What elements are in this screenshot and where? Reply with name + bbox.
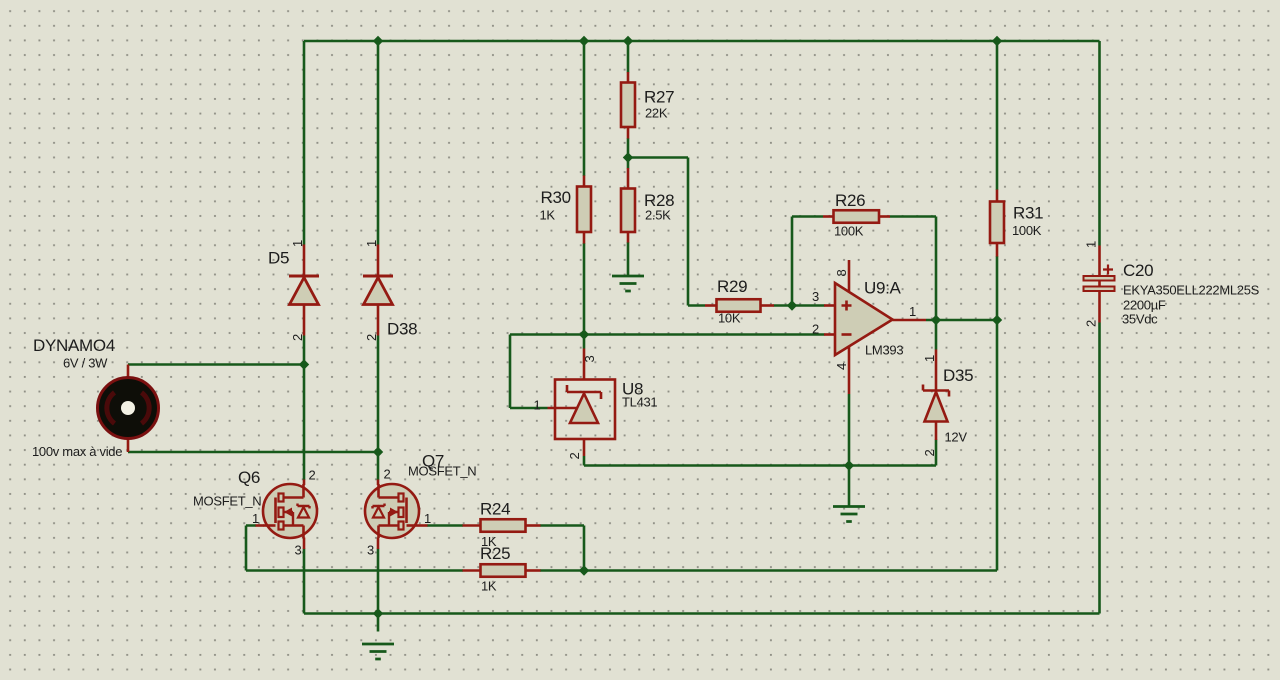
svg-text:D38: D38 — [387, 320, 417, 339]
svg-text:LM393: LM393 — [865, 343, 903, 358]
svg-text:3: 3 — [582, 355, 597, 362]
svg-text:2: 2 — [384, 467, 391, 482]
svg-text:DYNAMO4: DYNAMO4 — [33, 336, 115, 355]
svg-text:2: 2 — [364, 334, 379, 341]
svg-text:2: 2 — [812, 322, 819, 337]
svg-text:2: 2 — [922, 449, 937, 456]
svg-text:TL431: TL431 — [622, 395, 657, 410]
svg-text:3: 3 — [812, 289, 819, 304]
svg-text:1: 1 — [364, 240, 379, 247]
svg-text:8: 8 — [834, 269, 849, 276]
svg-text:3: 3 — [367, 543, 374, 558]
svg-text:2.5K: 2.5K — [645, 208, 671, 223]
svg-text:1: 1 — [290, 240, 305, 247]
svg-text:2200µF: 2200µF — [1123, 298, 1166, 313]
svg-text:R29: R29 — [717, 277, 747, 296]
svg-text:2: 2 — [1083, 320, 1098, 327]
svg-text:1: 1 — [909, 304, 916, 319]
svg-text:100v max à vide: 100v max à vide — [32, 444, 122, 459]
svg-text:2: 2 — [567, 452, 582, 459]
svg-text:6V / 3W: 6V / 3W — [63, 356, 108, 371]
svg-text:3: 3 — [295, 543, 302, 558]
svg-text:4: 4 — [834, 363, 849, 370]
svg-text:R24: R24 — [480, 500, 510, 519]
svg-text:2: 2 — [290, 334, 305, 341]
svg-text:R31: R31 — [1013, 204, 1043, 223]
svg-text:1: 1 — [252, 511, 259, 526]
svg-text:1: 1 — [534, 398, 541, 413]
svg-text:1K: 1K — [481, 534, 497, 549]
svg-text:Q6: Q6 — [238, 468, 260, 487]
svg-text:C20: C20 — [1123, 261, 1153, 280]
svg-text:10K: 10K — [718, 311, 741, 326]
svg-text:MOSFET_N: MOSFET_N — [193, 494, 261, 509]
svg-text:EKYA350ELL222ML25S: EKYA350ELL222ML25S — [1123, 283, 1260, 298]
svg-text:1: 1 — [922, 355, 937, 362]
svg-text:1: 1 — [1083, 241, 1098, 248]
svg-text:R27: R27 — [644, 88, 674, 107]
svg-text:R26: R26 — [835, 191, 865, 210]
svg-text:U9:A: U9:A — [864, 279, 902, 298]
svg-text:1: 1 — [424, 511, 431, 526]
svg-text:D5: D5 — [268, 249, 289, 268]
svg-text:1K: 1K — [481, 579, 497, 594]
svg-text:1K: 1K — [540, 208, 556, 223]
svg-text:100K: 100K — [1012, 223, 1042, 238]
svg-text:35Vdc: 35Vdc — [1122, 312, 1158, 327]
svg-text:100K: 100K — [834, 224, 864, 239]
svg-text:2: 2 — [309, 468, 316, 483]
svg-text:R30: R30 — [541, 188, 571, 207]
svg-text:12V: 12V — [945, 430, 968, 445]
svg-text:D35: D35 — [943, 366, 973, 385]
svg-text:MOSFET_N: MOSFET_N — [408, 464, 476, 479]
svg-text:22K: 22K — [645, 106, 668, 121]
